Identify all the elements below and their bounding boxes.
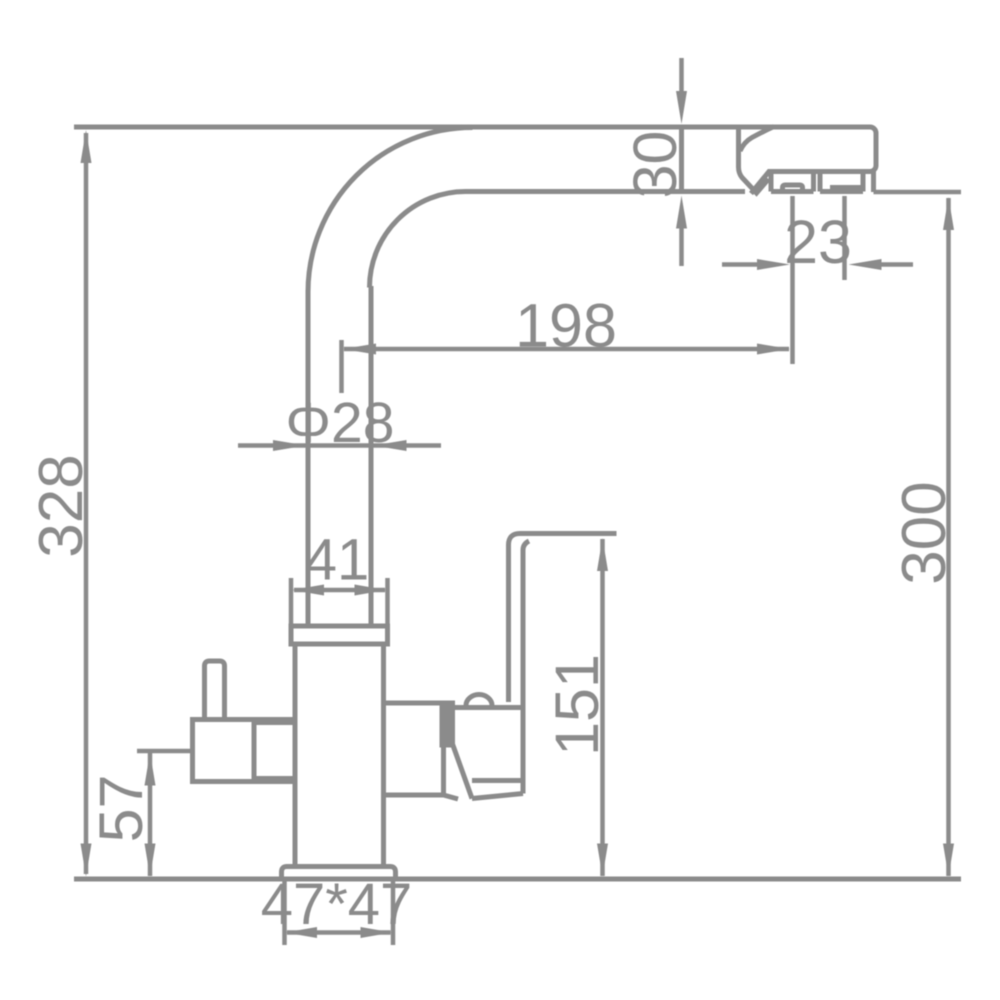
dim 41 ext right — [385, 578, 390, 624]
dim 30 line lower — [679, 228, 684, 266]
wire pipe left line — [306, 290, 311, 624]
wire right reference line — [874, 190, 962, 195]
left handle connector inset — [254, 723, 295, 779]
wire spout top line and head outline — [74, 127, 876, 194]
port aerator 1 — [771, 173, 814, 192]
dim 300 line — [946, 198, 951, 876]
dim 23 left arrow — [757, 259, 790, 270]
collar — [291, 626, 388, 644]
dim 300 arrow top — [943, 197, 954, 230]
dim 300 arrow bottom — [943, 844, 954, 877]
dim 41 right arrow — [355, 585, 387, 596]
left handle block divider — [252, 720, 257, 782]
dim 328 arrow bottom — [81, 844, 92, 877]
base plate — [282, 867, 396, 879]
dim 198 left arrow — [343, 344, 376, 355]
dim 151 arrow bottom — [597, 844, 608, 877]
dim 23 right arrow line — [880, 262, 913, 267]
node spout joint divider — [679, 125, 684, 193]
dim 57 arrow bottom — [145, 844, 156, 877]
dim 23 ext line left — [790, 196, 795, 364]
dim 23 ext line right — [842, 196, 847, 280]
body column right — [381, 647, 386, 866]
dim 47 line — [287, 930, 391, 935]
dim 198 line — [344, 347, 789, 352]
dim 30 arrow upper — [676, 91, 687, 124]
lever arm inner and block B right edge — [523, 541, 529, 794]
right block B inner line — [472, 778, 523, 783]
svg-text:Φ28: Φ28 — [286, 391, 395, 455]
left handle block — [193, 720, 296, 782]
svg-text:30: 30 — [621, 131, 689, 199]
lever arm outer — [509, 534, 617, 703]
dim 57 arrow top — [145, 753, 156, 786]
dim 47 left arrow — [285, 927, 317, 938]
dim 151 arrow top — [597, 538, 608, 571]
svg-text:151: 151 — [543, 654, 611, 756]
lever pivot dome — [466, 695, 492, 706]
dim 41 line — [294, 588, 385, 593]
port aerator 1 insert — [783, 185, 803, 191]
svg-text:300: 300 — [890, 481, 959, 584]
dim 198 tick — [339, 340, 344, 393]
ground line — [74, 877, 961, 882]
dim 30 line upper — [679, 58, 684, 95]
dim 23 right arrow — [849, 259, 882, 270]
svg-text:57: 57 — [87, 775, 155, 843]
dim 47 ext right — [391, 881, 396, 945]
dim phi28 left arrow — [273, 440, 306, 451]
right block B bottom — [472, 794, 523, 799]
right seam and funnel diagonal — [440, 701, 456, 748]
left handle stem — [205, 661, 225, 718]
dim 151 line — [600, 539, 605, 876]
dim 328 line — [84, 133, 89, 874]
svg-text:23: 23 — [784, 208, 852, 276]
svg-text:328: 328 — [27, 454, 96, 557]
dim 198 right arrow — [757, 344, 790, 355]
dim 41 left arrow — [292, 585, 324, 596]
wire spout bottom line — [465, 189, 745, 194]
wire head right step — [871, 172, 876, 193]
wire spout inner bend — [370, 192, 466, 288]
dim 47 right arrow — [361, 927, 393, 938]
right block A — [386, 703, 444, 795]
wire pipe right line — [369, 286, 374, 624]
dim 41 ext left — [289, 578, 294, 624]
svg-text:198: 198 — [515, 292, 617, 360]
svg-text:41: 41 — [305, 528, 370, 593]
port aerator 2 insert — [833, 188, 860, 192]
dim 57 line — [148, 753, 153, 876]
wire spout outer bend — [308, 128, 473, 293]
dim 47 ext left — [282, 881, 287, 945]
right block B top — [451, 705, 522, 710]
svg-text:47*47: 47*47 — [261, 872, 413, 937]
body column left — [293, 647, 298, 866]
wire head left joint lower — [739, 125, 769, 193]
dim phi28 line — [238, 443, 441, 448]
dim 328 arrow top — [81, 130, 92, 163]
port aerator 2 — [820, 173, 863, 192]
dim 30 arrow lower — [676, 196, 687, 229]
wire head left joint diagonal upper — [740, 127, 774, 152]
dim 57 ext line — [137, 749, 193, 754]
dim phi28 right arrow — [374, 440, 407, 451]
right block A bottom diagonal — [444, 795, 459, 799]
dim 23 left arrow line — [722, 262, 758, 267]
